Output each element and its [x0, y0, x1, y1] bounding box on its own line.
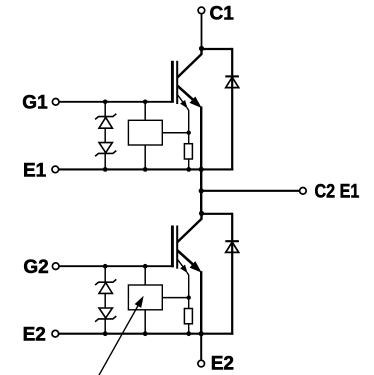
wire zener branch upper — [104, 102, 106, 170]
wire box U2 bottom lead — [144, 310, 146, 334]
zener Z1 cathode bar — [95, 114, 116, 120]
wire E1 bus — [59, 168, 234, 170]
svg-text:E2: E2 — [211, 354, 234, 375]
wire box U1 bottom lead — [144, 145, 146, 169]
svg-text:C2 E1: C2 E1 — [315, 182, 360, 203]
zener Z4 cathode bar — [95, 316, 116, 322]
node G1-zener — [103, 100, 108, 105]
terminal E2 left — [52, 330, 59, 337]
svg-text:G2: G2 — [23, 257, 48, 278]
terminal G2 — [52, 263, 59, 270]
svg-text:C1: C1 — [210, 3, 235, 24]
IGBT Q2 gate bar (thick left) — [171, 226, 174, 268]
node G2-box — [143, 264, 148, 269]
zener Z2 cathode bar — [95, 151, 116, 157]
diode D1 triangle — [226, 77, 239, 87]
wire sense emitter to node — [187, 108, 189, 170]
node E2-resistor — [186, 331, 191, 336]
wire G2 lead — [59, 265, 174, 267]
node G1-box — [143, 100, 148, 105]
IGBT Q2 sense emitter arrowhead — [181, 265, 187, 272]
wire emitter vertical — [200, 106, 202, 169]
IGBT Q1 emitter line — [178, 86, 195, 101]
wire box U1 top lead — [144, 102, 146, 121]
node E2-emitter — [199, 331, 204, 336]
annotation arrowhead — [135, 297, 143, 307]
diode D1 cathode bar — [225, 75, 239, 77]
box U1 — [128, 120, 162, 145]
resistor R1 — [184, 144, 192, 159]
svg-text:G1: G1 — [22, 93, 48, 114]
wire diode D2 branch vertical — [231, 213, 233, 335]
IGBT Q1 sense emitter line — [178, 95, 184, 102]
node E1-emitter — [199, 167, 204, 172]
IGBT Q1 emitter arrowhead — [190, 97, 200, 107]
zener Z1 triangle — [99, 117, 112, 128]
IGBT Q1 channel bar (thin right) — [176, 61, 178, 104]
box U2 — [128, 285, 162, 310]
node E1-zener — [103, 167, 108, 172]
resistor R2 — [184, 309, 192, 324]
node C2E1 — [199, 188, 204, 193]
wire mid bus to diode D2 — [202, 213, 233, 215]
wire C1 stub — [201, 14, 203, 49]
wire sense emitter to node lower — [187, 272, 189, 334]
IGBT Q2 collector diagonal — [177, 218, 202, 242]
wire E2 bottom stub — [200, 334, 202, 361]
node E2-box — [143, 331, 148, 336]
wire mid vertical — [200, 169, 202, 213]
zener Z3 cathode bar — [95, 279, 116, 285]
IGBT Q2 emitter line — [178, 251, 195, 266]
terminal G1 — [52, 99, 59, 106]
IGBT Q1 collector kink wire — [200, 48, 202, 55]
IGBT Q2 emitter arrowhead — [190, 262, 200, 272]
annotation arrow line — [99, 305, 139, 375]
node sense junction lower — [187, 295, 191, 299]
zener Z2 triangle — [99, 143, 112, 153]
node sense junction upper — [187, 131, 191, 135]
wire box U2 right lead — [162, 297, 188, 299]
IGBT Q2 collector kink wire — [200, 212, 202, 219]
node E1-resistor — [186, 167, 191, 172]
wire box U2 top lead — [144, 266, 146, 285]
zener Z3 triangle — [99, 283, 112, 294]
wire G1 lead — [59, 101, 174, 103]
terminal C2E1 — [300, 188, 307, 195]
node junction top (C1 node) — [199, 46, 204, 51]
wire box U1 right lead — [162, 132, 188, 134]
svg-text:E2: E2 — [23, 325, 46, 346]
IGBT Q2 sense emitter line — [178, 260, 184, 267]
wire emitter vertical lower — [200, 271, 202, 334]
wire E2 bus — [59, 333, 234, 335]
IGBT Q1 sense emitter arrowhead — [181, 101, 187, 108]
node E1-box — [143, 167, 148, 172]
wire top bus to diode D1 — [202, 48, 233, 50]
zener Z4 triangle — [99, 308, 112, 318]
IGBT Q2 channel bar (thin right) — [176, 226, 178, 269]
terminal E1 — [52, 166, 59, 173]
node G2-zener — [103, 264, 108, 269]
node junction mid (C2 node) — [199, 211, 204, 216]
terminal E2 bottom — [198, 360, 205, 367]
diode D2 cathode bar — [225, 240, 239, 242]
node E2-zener — [103, 331, 108, 336]
wire zener branch lower — [104, 266, 106, 334]
terminal C1 — [198, 7, 205, 14]
wire C2E1 lead — [201, 190, 300, 192]
IGBT Q1 collector diagonal — [177, 54, 202, 78]
wire diode D1 branch vertical — [231, 48, 233, 170]
svg-text:E1: E1 — [23, 160, 47, 181]
IGBT Q1 gate bar (thick left) — [171, 61, 174, 103]
diode D2 triangle — [226, 242, 239, 252]
